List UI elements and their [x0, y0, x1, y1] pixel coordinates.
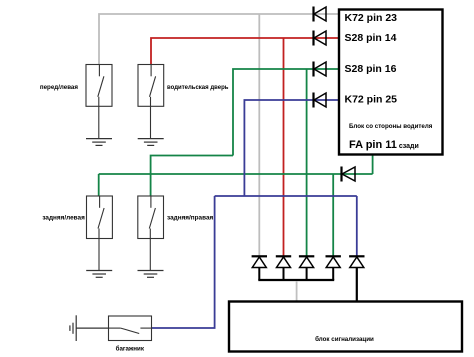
svg-text:задняя/правая: задняя/правая — [167, 214, 214, 221]
wire red vertical branch to bottom diode D2 — [283, 38, 285, 256]
switch S5 trunk — [109, 316, 152, 341]
diode D6 to K72 pin 23 — [314, 7, 327, 22]
switch S1 front-left door — [86, 65, 112, 139]
diode D9 to K72 pin 25 — [314, 93, 327, 108]
diode D5 bottom row — [349, 256, 364, 267]
wire green drop to rear-left switch — [98, 174, 100, 196]
svg-text:S28 pin 16: S28 pin 16 — [345, 63, 397, 75]
wire red net: driver door switch to S28 pin 14 — [151, 38, 339, 65]
wire green segment to rear-right switch — [151, 156, 233, 197]
wire green riser FA pin 11 — [372, 155, 374, 175]
diode D8 to S28 pin 16 — [314, 62, 327, 77]
wire trunk to ground — [76, 327, 108, 329]
ground GND3 — [86, 271, 112, 278]
driver side block U1 — [339, 10, 443, 155]
diode D4 bottom row — [326, 256, 341, 280]
switch S3 rear-left door — [87, 196, 113, 271]
switch S4 rear-right door — [138, 196, 164, 271]
svg-text:багажник: багажник — [116, 346, 145, 353]
diode D2 bottom row — [276, 256, 291, 280]
wire blue net: K72 pin 25 horizontal — [244, 100, 339, 196]
svg-text:задняя/левая: задняя/левая — [42, 214, 85, 221]
wire blue vertical branch to bottom diode D5 — [356, 196, 358, 256]
svg-text:блок сигнализации: блок сигнализации — [315, 336, 374, 343]
svg-text:S28 pin 14: S28 pin 14 — [345, 32, 397, 44]
alarm block U2 — [229, 302, 462, 352]
wire black diode bus — [258, 279, 334, 281]
wire gray bus to alarm block — [296, 281, 298, 302]
wire gray vertical branch to bottom diode D1 — [258, 14, 260, 256]
ground GND1 — [86, 139, 112, 146]
svg-text:Блок со стороны водителя: Блок со стороны водителя — [349, 123, 433, 130]
wire gray net: front-left switch to K72 pin 23 — [99, 14, 339, 65]
diode D10 to FA pin 11 — [342, 167, 356, 182]
wire blue horizontal distribution — [215, 195, 357, 197]
ground GND5 — [70, 315, 76, 341]
wire blue drop to trunk switch — [152, 196, 215, 328]
svg-text:K72 pin 25: K72 pin 25 — [345, 94, 398, 106]
wire green vertical branch to bottom diode D4 — [332, 174, 334, 256]
svg-text:водительская дверь: водительская дверь — [167, 85, 229, 91]
ground GND2 — [138, 139, 164, 146]
wire black diode D5 to alarm block — [356, 268, 358, 302]
ground GND4 — [138, 271, 164, 278]
diode D1 bottom row — [252, 256, 267, 280]
diode D7 to S28 pin 14 — [314, 31, 327, 46]
wire green vertical branch to bottom diode D3 — [306, 69, 308, 256]
wire green long horizontal to FA diode — [99, 173, 373, 175]
svg-text:K72 pin 23: K72 pin 23 — [345, 12, 398, 24]
wire green net: S28 pin 16 horizontal — [233, 69, 339, 156]
switch S2 driver door — [138, 65, 164, 139]
diode D3 bottom row — [299, 256, 314, 280]
svg-text:перед/левая: перед/левая — [40, 84, 78, 91]
